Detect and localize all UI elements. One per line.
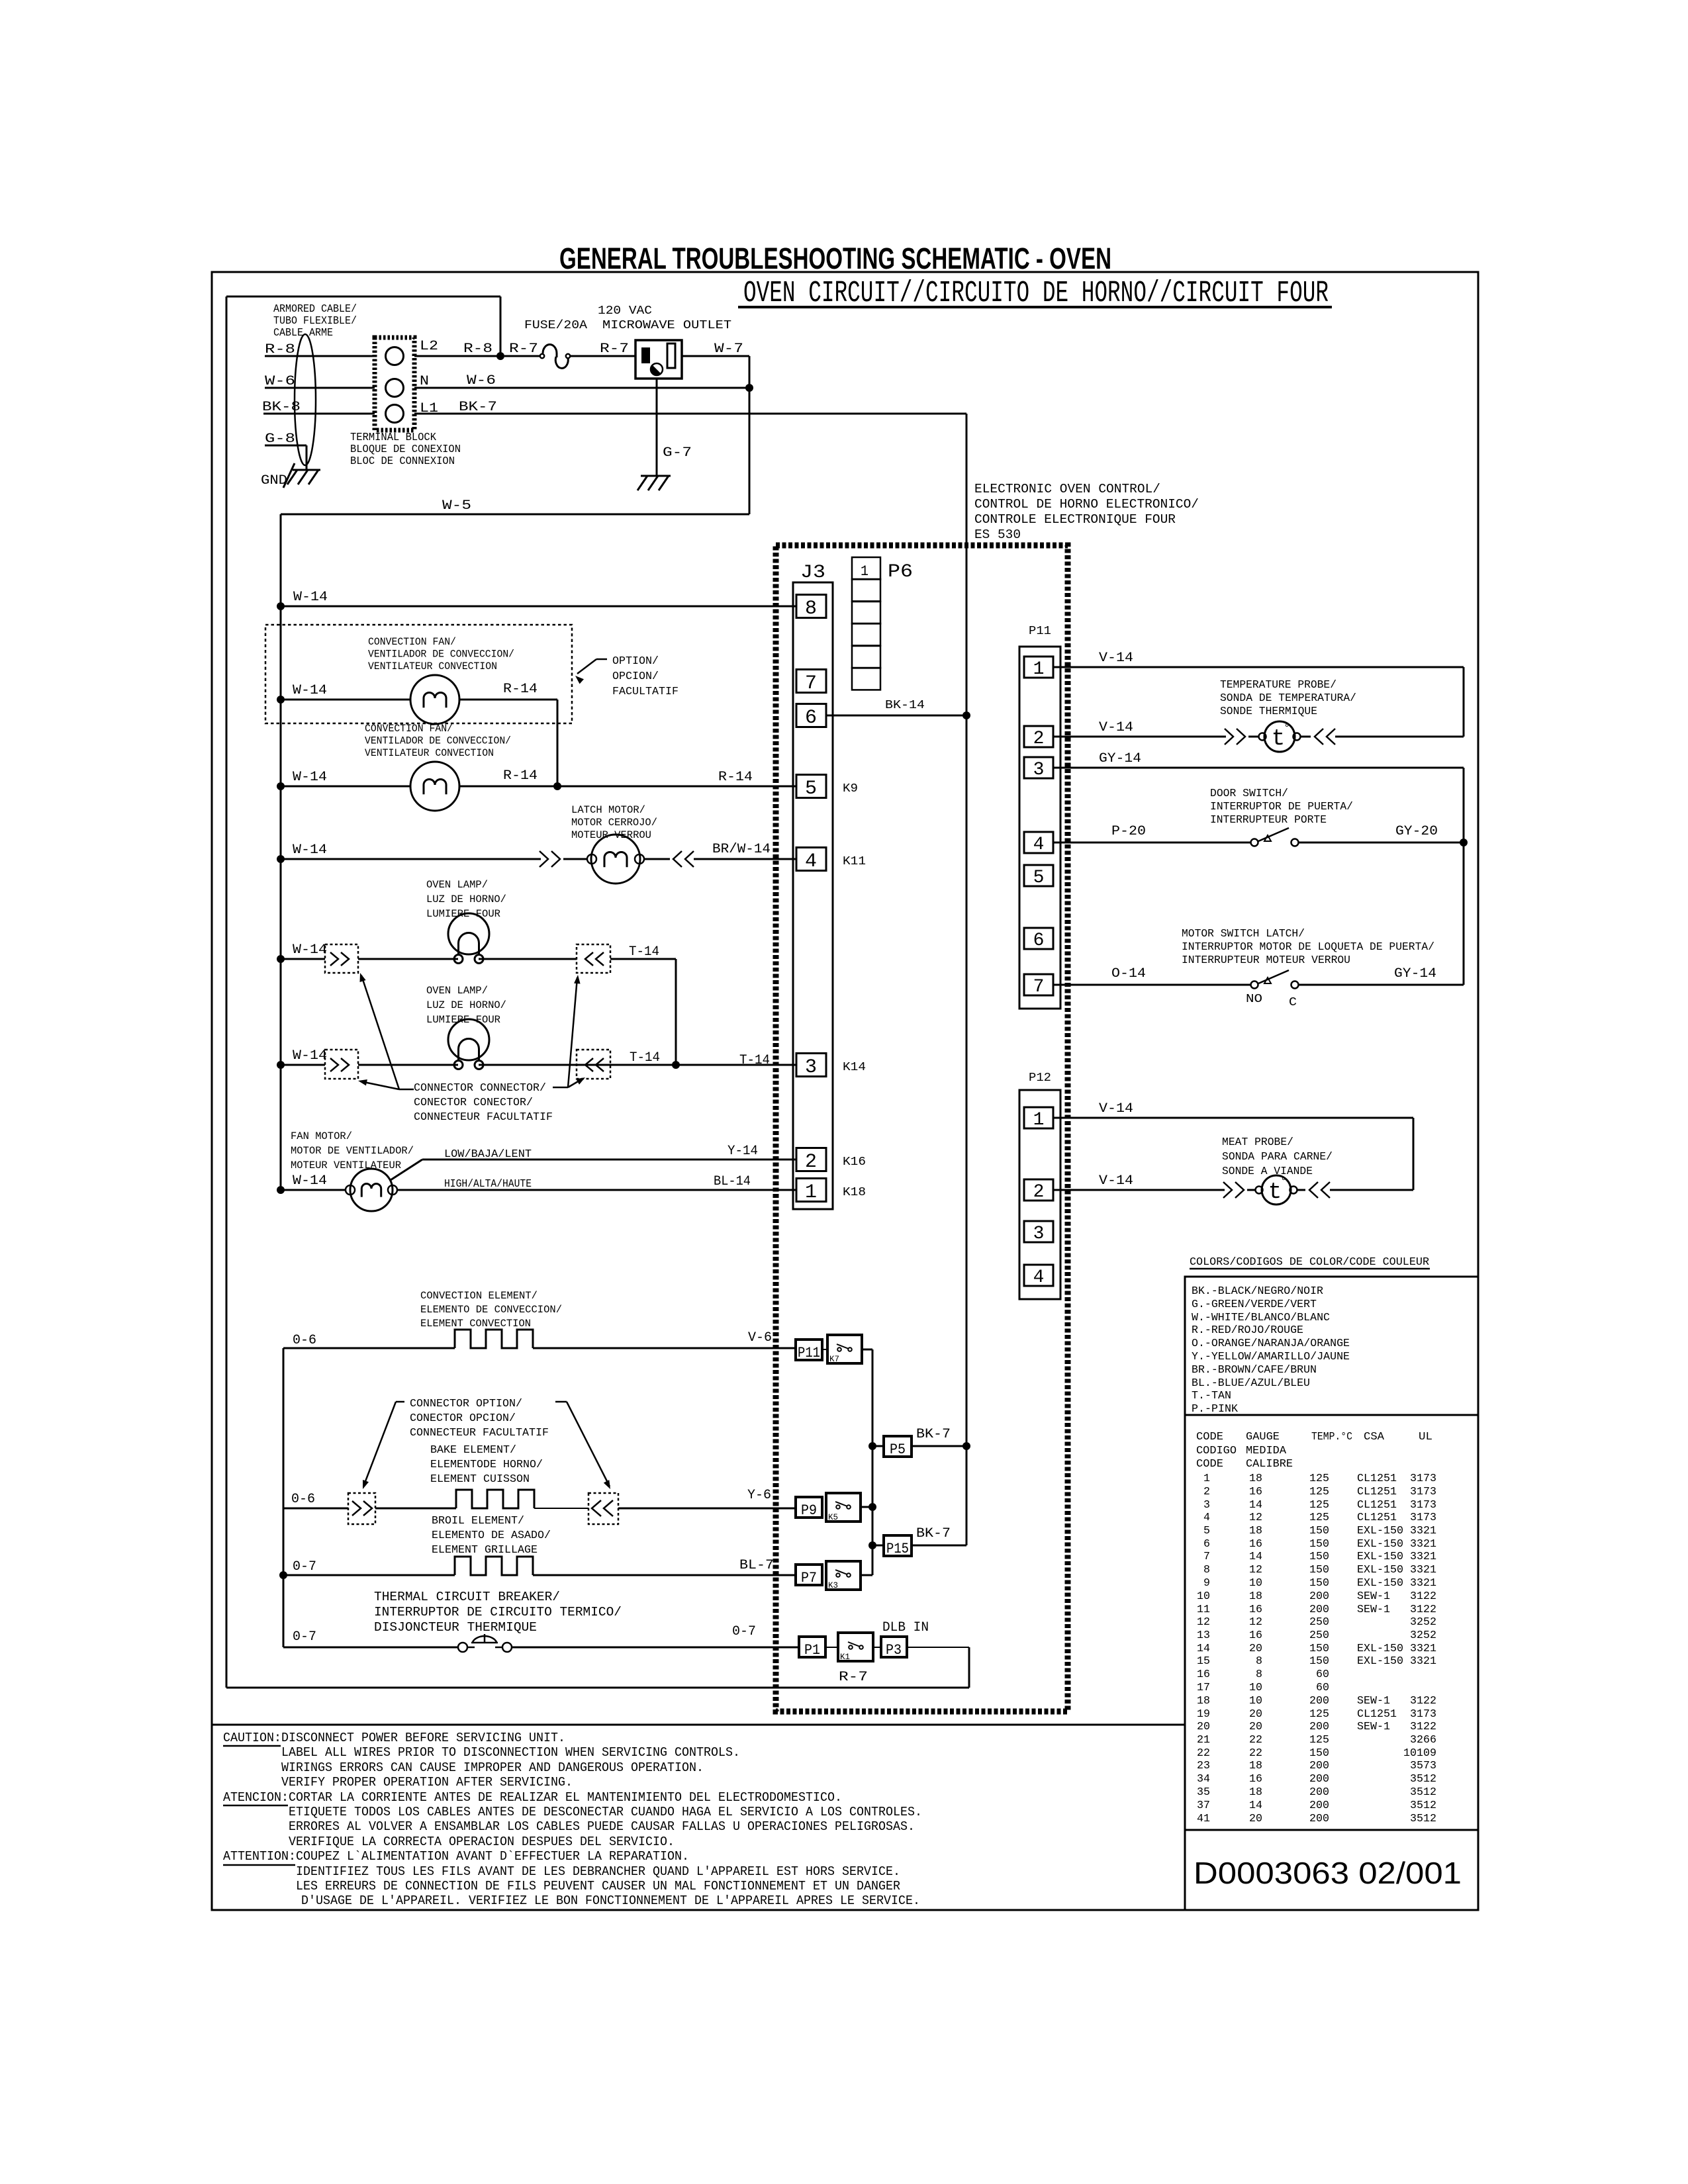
svg-text:LUMIERE FOUR: LUMIERE FOUR (426, 1014, 500, 1026)
svg-text:22: 22 (1197, 1747, 1210, 1760)
svg-text:P11: P11 (1029, 625, 1051, 638)
wire L2 to node (414, 355, 500, 357)
svg-text:CONTROLE ELECTRONIQUE FOUR: CONTROLE ELECTRONIQUE FOUR (974, 512, 1176, 527)
svg-text:3321: 3321 (1410, 1643, 1436, 1655)
svg-text:CL1251: CL1251 (1357, 1473, 1397, 1485)
fan motor wire left (281, 1189, 346, 1191)
svg-text:250: 250 (1309, 1616, 1329, 1629)
node R-8/R-7 junction (496, 352, 504, 360)
svg-text:T-14: T-14 (739, 1053, 770, 1068)
temperature probe chevrons left (1225, 729, 1233, 745)
fan motor LOW diagonal (391, 1160, 422, 1180)
svg-text:W-14: W-14 (293, 842, 327, 858)
terminal block (375, 338, 414, 430)
svg-text:D0003063 02/001: D0003063 02/001 (1194, 1856, 1462, 1890)
convection element wire left (283, 1347, 455, 1349)
connector leader right (553, 1087, 568, 1089)
node W-14 lamp1 (277, 955, 285, 963)
svg-text:20: 20 (1249, 1721, 1262, 1733)
P11 pin 4 (1024, 832, 1053, 853)
svg-text:4: 4 (805, 850, 817, 873)
svg-text:18: 18 (1249, 1760, 1262, 1772)
svg-text:ELEMENT CUISSON: ELEMENT CUISSON (430, 1473, 530, 1486)
P12 pin 2 (1024, 1179, 1053, 1201)
svg-text:OVEN LAMP/: OVEN LAMP/ (426, 985, 488, 997)
svg-text:125: 125 (1309, 1473, 1329, 1485)
wire P1 to K1 (825, 1647, 838, 1648)
svg-text:W-14: W-14 (293, 683, 327, 698)
wire P3 return (907, 1647, 969, 1648)
bake wire to connector (534, 1508, 588, 1509)
P11 pin 3 (1024, 757, 1053, 778)
svg-text:Y-6: Y-6 (747, 1488, 771, 1503)
svg-text:ATTENTION:COUPEZ L`ALIMENTATIO: ATTENTION:COUPEZ L`ALIMENTATION AVANT D`… (223, 1849, 689, 1864)
svg-text:4: 4 (1033, 1267, 1045, 1288)
svg-text:FACULTATIF: FACULTATIF (612, 686, 679, 698)
svg-text:7: 7 (805, 672, 817, 695)
svg-text:0-6: 0-6 (291, 1492, 315, 1507)
svg-text:200: 200 (1309, 1813, 1329, 1825)
svg-text:MOTOR SWITCH LATCH/: MOTOR SWITCH LATCH/ (1182, 928, 1305, 940)
node O bus broil (279, 1571, 287, 1579)
wire latch switch to vertical GY-14 (1298, 984, 1464, 986)
svg-text:3: 3 (1203, 1499, 1210, 1512)
svg-text:SONDA PARA CARNE/: SONDA PARA CARNE/ (1222, 1151, 1333, 1163)
svg-text:20: 20 (1249, 1708, 1262, 1721)
node T-14 junction (672, 1061, 680, 1069)
ground GND symbol (293, 469, 320, 471)
svg-text:14: 14 (1197, 1643, 1210, 1655)
svg-text:3512: 3512 (1410, 1799, 1436, 1812)
svg-text:1: 1 (805, 1181, 817, 1204)
relay P11 input box (796, 1340, 822, 1360)
bake wire left (283, 1508, 348, 1510)
convection fan M1 (410, 675, 459, 724)
svg-text:CAUTION:DISCONNECT POWER BEFOR: CAUTION:DISCONNECT POWER BEFORE SERVICIN… (223, 1731, 565, 1745)
fuse F1 (540, 354, 544, 358)
underline CAUTION (223, 1745, 281, 1747)
svg-text:MOTOR DE VENTILADOR/: MOTOR DE VENTILADOR/ (291, 1145, 414, 1157)
svg-text:C: C (1289, 996, 1297, 1009)
svg-text:BLOC DE CONNEXION: BLOC DE CONNEXION (350, 455, 455, 468)
svg-text:EXL-150: EXL-150 (1357, 1643, 1403, 1655)
connector option leader right (555, 1401, 567, 1403)
svg-text:3266: 3266 (1410, 1734, 1436, 1747)
svg-text:ES 530: ES 530 (974, 527, 1021, 542)
convection fan M1 wire right (459, 699, 557, 701)
svg-text:R-7: R-7 (839, 1670, 868, 1685)
node W-14 fan2 (277, 782, 285, 790)
P11 pin 5 (1024, 865, 1053, 886)
svg-text:SONDA DE TEMPERATURA/: SONDA DE TEMPERATURA/ (1220, 692, 1356, 705)
terminal block circle L1 (386, 405, 404, 423)
svg-text:V-14: V-14 (1099, 720, 1133, 735)
svg-text:18: 18 (1249, 1590, 1262, 1603)
svg-text:ARMORED CABLE/: ARMORED CABLE/ (273, 303, 357, 316)
convection fan M2 wire left (281, 786, 410, 788)
oven lamp 2 wire mid (358, 1064, 458, 1066)
svg-text:200: 200 (1309, 1721, 1329, 1733)
wire temp probe to vertical (1335, 736, 1464, 738)
svg-text:150: 150 (1309, 1538, 1329, 1551)
svg-text:EXL-150: EXL-150 (1357, 1551, 1403, 1563)
wire meat probe to vertical (1330, 1189, 1413, 1191)
svg-text:BK-7: BK-7 (916, 1427, 951, 1442)
svg-text:125: 125 (1309, 1512, 1329, 1524)
wire P15 to BK bus (912, 1545, 966, 1547)
svg-text:16: 16 (1249, 1773, 1262, 1786)
svg-text:14: 14 (1249, 1499, 1262, 1512)
oven lamp 1 wire right (479, 958, 577, 960)
svg-text:BL-14: BL-14 (714, 1174, 751, 1189)
svg-text:CONVECTION ELEMENT/: CONVECTION ELEMENT/ (420, 1290, 538, 1302)
node K5 tap (868, 1503, 876, 1511)
svg-text:20: 20 (1197, 1721, 1210, 1733)
svg-text:OVEN CIRCUIT//CIRCUITO DE HORN: OVEN CIRCUIT//CIRCUITO DE HORNO//CIRCUIT… (743, 277, 1329, 310)
svg-text:T.-TAN: T.-TAN (1192, 1390, 1231, 1402)
svg-text:Y.-YELLOW/AMARILLO/JAUNE: Y.-YELLOW/AMARILLO/JAUNE (1192, 1351, 1350, 1363)
wire V-14 P12-2 to probe (1053, 1189, 1225, 1191)
svg-text:SONDE A VIANDE: SONDE A VIANDE (1222, 1165, 1313, 1178)
svg-text:°: ° (1284, 722, 1290, 734)
svg-text:t: t (1268, 1180, 1282, 1205)
svg-text:BAKE ELEMENT/: BAKE ELEMENT/ (430, 1444, 516, 1457)
node W-14 latch (277, 855, 285, 863)
J3 pin 6 (796, 704, 826, 727)
node P15 tap (868, 1541, 876, 1549)
svg-text:BR.-BROWN/CAFE/BRUN: BR.-BROWN/CAFE/BRUN (1192, 1364, 1317, 1377)
svg-text:LUZ DE HORNO/: LUZ DE HORNO/ (426, 999, 506, 1011)
svg-text:R.-RED/ROJO/ROUGE: R.-RED/ROJO/ROUGE (1192, 1324, 1303, 1337)
oven lamp 2 wire left (281, 1064, 325, 1066)
svg-text:UL: UL (1419, 1431, 1432, 1443)
svg-text:P7: P7 (801, 1570, 817, 1586)
svg-text:12: 12 (1249, 1512, 1262, 1524)
svg-text:125: 125 (1309, 1708, 1329, 1721)
convection element wire right (533, 1347, 796, 1349)
svg-text:WIRINGS ERRORS CAN CAUSE IMPRO: WIRINGS ERRORS CAN CAUSE IMPROPER AND DA… (281, 1760, 704, 1775)
svg-text:60: 60 (1316, 1682, 1329, 1694)
svg-text:INTERRUPTOR DE CIRCUITO TERMIC: INTERRUPTOR DE CIRCUITO TERMICO/ (374, 1605, 622, 1619)
svg-text:D'USAGE DE L'APPAREIL. VERIFIE: D'USAGE DE L'APPAREIL. VERIFIEZ LE BON F… (301, 1893, 920, 1908)
svg-text:23: 23 (1197, 1760, 1210, 1772)
svg-text:200: 200 (1309, 1760, 1329, 1772)
connector P5 (884, 1436, 912, 1457)
svg-text:BL.-BLUE/AZUL/BLEU: BL.-BLUE/AZUL/BLEU (1192, 1377, 1310, 1390)
connector P15 (884, 1535, 912, 1556)
wire V-14 P11-1 (1053, 666, 1464, 668)
svg-text:34: 34 (1197, 1773, 1210, 1786)
meat probe (1247, 1189, 1255, 1191)
connector option leader left (396, 1401, 404, 1403)
microwave outlet (635, 340, 682, 379)
svg-text:16: 16 (1249, 1629, 1262, 1642)
svg-text:16: 16 (1249, 1538, 1262, 1551)
wire W-5 horizontal (281, 514, 749, 516)
svg-text:CL1251: CL1251 (1357, 1486, 1397, 1498)
svg-text:200: 200 (1309, 1786, 1329, 1799)
node BK-14 junction (962, 711, 970, 719)
svg-text:1: 1 (861, 563, 868, 580)
svg-text:ELEMENT CONVECTION: ELEMENT CONVECTION (420, 1318, 531, 1330)
bake connector >> box (348, 1493, 375, 1524)
wire BK vertical bus (966, 414, 968, 1545)
wire fan1 drop (557, 700, 559, 786)
svg-text:11: 11 (1197, 1604, 1210, 1616)
svg-text:12: 12 (1197, 1616, 1210, 1629)
wire P5 to BK bus (912, 1445, 966, 1447)
wire W down to W-5 (749, 388, 751, 514)
svg-text:37: 37 (1197, 1799, 1210, 1812)
wire P-20 P11-4 to switch (1053, 842, 1251, 844)
svg-text:G.-GREEN/VERDE/VERT: G.-GREEN/VERDE/VERT (1192, 1298, 1317, 1311)
meat probe chevrons left (1223, 1182, 1232, 1198)
svg-text:SEW-1: SEW-1 (1357, 1590, 1390, 1603)
svg-text:CONNECTEUR FACULTATIF: CONNECTEUR FACULTATIF (414, 1111, 553, 1124)
subtitle underline (738, 306, 1332, 308)
meat probe chevrons right (1321, 1182, 1330, 1198)
svg-text:10109: 10109 (1403, 1747, 1436, 1760)
wire top rail R-7 return (226, 296, 500, 298)
svg-text:3: 3 (1033, 760, 1045, 780)
svg-text:INTERRUPTOR MOTOR DE LOQUETA D: INTERRUPTOR MOTOR DE LOQUETA DE PUERTA/ (1182, 941, 1434, 954)
relay P7 input box (796, 1565, 822, 1585)
svg-text:21: 21 (1197, 1734, 1210, 1747)
svg-text:3321: 3321 (1410, 1577, 1436, 1590)
svg-text:16: 16 (1197, 1668, 1210, 1681)
svg-text:TUBO FLEXIBLE/: TUBO FLEXIBLE/ (273, 315, 357, 328)
svg-text:13: 13 (1197, 1629, 1210, 1642)
wire BK-14 J3-6 to bus (826, 715, 966, 717)
svg-text:W.-WHITE/BLANCO/BLANC: W.-WHITE/BLANCO/BLANC (1192, 1312, 1330, 1324)
svg-text:VENTILATEUR CONVECTION: VENTILATEUR CONVECTION (365, 747, 494, 759)
svg-text:0-7: 0-7 (732, 1624, 756, 1639)
svg-text:125: 125 (1309, 1499, 1329, 1512)
svg-text:200: 200 (1309, 1695, 1329, 1707)
broil wire right to P7 (533, 1574, 796, 1576)
svg-text:3173: 3173 (1410, 1486, 1436, 1498)
P11 pin 1 (1024, 657, 1053, 678)
wire lamp1 T-14 to drop (610, 958, 676, 960)
J3 pin 2 (796, 1148, 826, 1171)
svg-text:MOTEUR VERROU: MOTEUR VERROU (571, 829, 651, 841)
oven lamp 1 wire left (281, 958, 325, 960)
svg-text:TEMP.°C: TEMP.°C (1311, 1431, 1352, 1443)
J3 pin 1 (796, 1179, 826, 1202)
wire T-14 drop (675, 959, 677, 1065)
svg-text:G-8: G-8 (265, 432, 295, 447)
connector P12 outline (1019, 1090, 1060, 1299)
bake connector << box (588, 1493, 618, 1524)
wire P11 to K7 (822, 1349, 827, 1350)
svg-text:R-14: R-14 (718, 770, 753, 785)
svg-text:8: 8 (1203, 1564, 1210, 1576)
svg-text:P3: P3 (886, 1642, 902, 1659)
node W-14 fan motor (277, 1186, 285, 1194)
svg-text:10: 10 (1249, 1695, 1262, 1707)
svg-text:Y-14: Y-14 (727, 1144, 758, 1159)
svg-text:W-14: W-14 (293, 590, 328, 605)
svg-text:150: 150 (1309, 1747, 1329, 1760)
svg-text:ELEMENTO DE ASADO/: ELEMENTO DE ASADO/ (432, 1529, 551, 1542)
svg-text:P12: P12 (1029, 1071, 1051, 1085)
svg-text:W-14: W-14 (293, 1048, 327, 1064)
wire P5 left (872, 1445, 884, 1447)
svg-text:CONVECTION FAN/: CONVECTION FAN/ (368, 636, 456, 648)
svg-text:2: 2 (805, 1151, 817, 1173)
svg-text:OPCION/: OPCION/ (612, 670, 659, 683)
wire P15 left (872, 1545, 884, 1547)
svg-text:8: 8 (1256, 1655, 1262, 1668)
svg-text:P-20: P-20 (1111, 824, 1146, 839)
oven lamp 2 (448, 1019, 489, 1060)
wire W-6 left (265, 387, 375, 389)
svg-text:CODE: CODE (1196, 1431, 1223, 1443)
wire GY-14 P11-3 (1053, 767, 1464, 769)
connector P6 cells (852, 557, 880, 579)
svg-text:THERMAL CIRCUIT BREAKER/: THERMAL CIRCUIT BREAKER/ (374, 1590, 560, 1604)
option leader line (596, 659, 607, 660)
svg-text:VERIFY PROPER OPERATION AFTER: VERIFY PROPER OPERATION AFTER SERVICING. (281, 1775, 573, 1790)
svg-text:SEW-1: SEW-1 (1357, 1604, 1390, 1616)
svg-text:CL1251: CL1251 (1357, 1499, 1397, 1512)
wire left rail R-7 return (226, 296, 228, 1688)
svg-text:3173: 3173 (1410, 1512, 1436, 1524)
svg-text:DLB IN: DLB IN (882, 1620, 929, 1635)
svg-text:CL1251: CL1251 (1357, 1708, 1397, 1721)
svg-text:250: 250 (1309, 1629, 1329, 1642)
svg-text:FAN MOTOR/: FAN MOTOR/ (291, 1130, 352, 1142)
svg-text:5: 5 (1203, 1525, 1210, 1537)
svg-text:ELEMENTO DE CONVECCION/: ELEMENTO DE CONVECCION/ (420, 1304, 562, 1316)
svg-text:16: 16 (1249, 1486, 1262, 1498)
svg-text:18: 18 (1249, 1786, 1262, 1799)
svg-text:3512: 3512 (1410, 1773, 1436, 1786)
svg-text:1: 1 (1033, 659, 1045, 680)
node fan junction (553, 782, 561, 790)
wire BK-7 top (414, 413, 966, 415)
wire O-14 P11-7 to switch (1053, 984, 1251, 986)
svg-text:CONNECTEUR FACULTATIF: CONNECTEUR FACULTATIF (410, 1427, 549, 1439)
svg-text:200: 200 (1309, 1773, 1329, 1786)
svg-text:t: t (1272, 727, 1285, 752)
svg-text:P15: P15 (886, 1541, 909, 1557)
svg-text:DISJONCTEUR THERMIQUE: DISJONCTEUR THERMIQUE (374, 1620, 537, 1635)
connector J3 outline (793, 582, 833, 1209)
svg-text:ELEMENT GRILLAGE: ELEMENT GRILLAGE (432, 1544, 538, 1557)
relay P9 input box (796, 1497, 822, 1518)
svg-text:LES ERREURS DE CONNECTION DE F: LES ERREURS DE CONNECTION DE FILS PEUVEN… (296, 1879, 900, 1893)
svg-text:BLOQUE DE CONEXION: BLOQUE DE CONEXION (350, 443, 461, 456)
svg-text:P5: P5 (890, 1441, 906, 1458)
svg-text:INTERRUPTEUR MOTEUR VERROU: INTERRUPTEUR MOTEUR VERROU (1182, 954, 1350, 967)
svg-text:CODIGO: CODIGO (1196, 1445, 1237, 1457)
svg-text:BROIL ELEMENT/: BROIL ELEMENT/ (432, 1515, 524, 1527)
svg-text:2: 2 (1033, 1182, 1045, 1203)
node W-14 lamp2 (277, 1061, 285, 1069)
svg-text:INTERRUPTOR DE PUERTA/: INTERRUPTOR DE PUERTA/ (1210, 801, 1353, 813)
svg-text:3173: 3173 (1410, 1708, 1436, 1721)
P11 pin 2 (1024, 726, 1053, 747)
svg-text:FUSE/20A: FUSE/20A (524, 319, 587, 332)
svg-text:K1: K1 (840, 1652, 850, 1662)
svg-text:CONVECTION FAN/: CONVECTION FAN/ (365, 723, 453, 735)
svg-text:K14: K14 (843, 1061, 866, 1074)
wire V-14 P11-2 to probe (1053, 736, 1226, 738)
oven lamp 2 wire right to J3-3 (479, 1064, 796, 1066)
svg-text:10: 10 (1249, 1577, 1262, 1590)
svg-text:V-14: V-14 (1099, 651, 1133, 666)
connector P3 (881, 1637, 907, 1657)
svg-text:R-14: R-14 (503, 768, 538, 784)
wire temp probe right vertical (1463, 667, 1465, 737)
svg-text:K11: K11 (843, 855, 866, 868)
svg-text:14: 14 (1249, 1799, 1262, 1812)
wire V-14 P12-1 (1053, 1117, 1413, 1119)
thermal circuit breaker CB1 (458, 1643, 467, 1652)
svg-text:10: 10 (1249, 1682, 1262, 1694)
svg-text:0-6: 0-6 (293, 1333, 316, 1348)
svg-text:18: 18 (1197, 1695, 1210, 1707)
svg-text:18: 18 (1249, 1525, 1262, 1537)
svg-text:W-6: W-6 (467, 373, 496, 388)
svg-text:CONNECTOR OPTION/: CONNECTOR OPTION/ (410, 1398, 522, 1410)
svg-text:5: 5 (1033, 868, 1045, 888)
svg-text:200: 200 (1309, 1590, 1329, 1603)
svg-text:W-14: W-14 (293, 942, 327, 958)
bake wire right to P9 (618, 1508, 796, 1510)
wire door switch to vertical GY-20 (1298, 842, 1464, 844)
oven lamp 1 wire mid (358, 958, 458, 960)
svg-text:3: 3 (805, 1056, 817, 1079)
thermal breaker wire right to P1 (512, 1647, 799, 1649)
temperature probe chevrons right (1327, 729, 1335, 745)
connector P11 outline (1019, 647, 1060, 1009)
fan motor M4 (346, 1185, 355, 1195)
latch motor M3 (563, 858, 587, 860)
svg-text:ERRORES AL VOLVER A ENSAMBLAR: ERRORES AL VOLVER A ENSAMBLAR LOS CABLES… (289, 1819, 915, 1834)
svg-text:12: 12 (1249, 1564, 1262, 1576)
svg-text:8: 8 (805, 598, 817, 620)
wire W-6 to junction (414, 387, 749, 389)
svg-text:BL-7: BL-7 (739, 1558, 774, 1573)
svg-text:3252: 3252 (1410, 1629, 1436, 1642)
svg-text:CONNECTOR CONNECTOR/: CONNECTOR CONNECTOR/ (414, 1082, 546, 1095)
node BK bus P5 (962, 1442, 970, 1450)
svg-text:3173: 3173 (1410, 1499, 1436, 1512)
svg-text:NO: NO (1246, 993, 1262, 1006)
svg-text:3321: 3321 (1410, 1538, 1436, 1551)
connector P1 (799, 1637, 825, 1657)
J3 pin 7 (796, 670, 826, 693)
svg-text:150: 150 (1309, 1577, 1329, 1590)
svg-text:150: 150 (1309, 1564, 1329, 1576)
wire fuse to outlet (570, 355, 635, 357)
svg-text:15: 15 (1197, 1655, 1210, 1668)
svg-text:K18: K18 (843, 1186, 866, 1199)
svg-text:0-7: 0-7 (293, 1629, 316, 1645)
wire LOW to J3-2 (422, 1159, 796, 1161)
svg-text:EXL-150: EXL-150 (1357, 1564, 1403, 1576)
svg-text:CSA: CSA (1364, 1431, 1385, 1443)
svg-text:3321: 3321 (1410, 1551, 1436, 1563)
bake wire mid (375, 1508, 456, 1510)
wire W-14 left bus (280, 514, 282, 1190)
caution box top border (212, 1724, 1185, 1726)
svg-text:K5: K5 (828, 1512, 838, 1522)
svg-text:R-14: R-14 (503, 682, 538, 697)
terminal block circle N (386, 379, 404, 397)
